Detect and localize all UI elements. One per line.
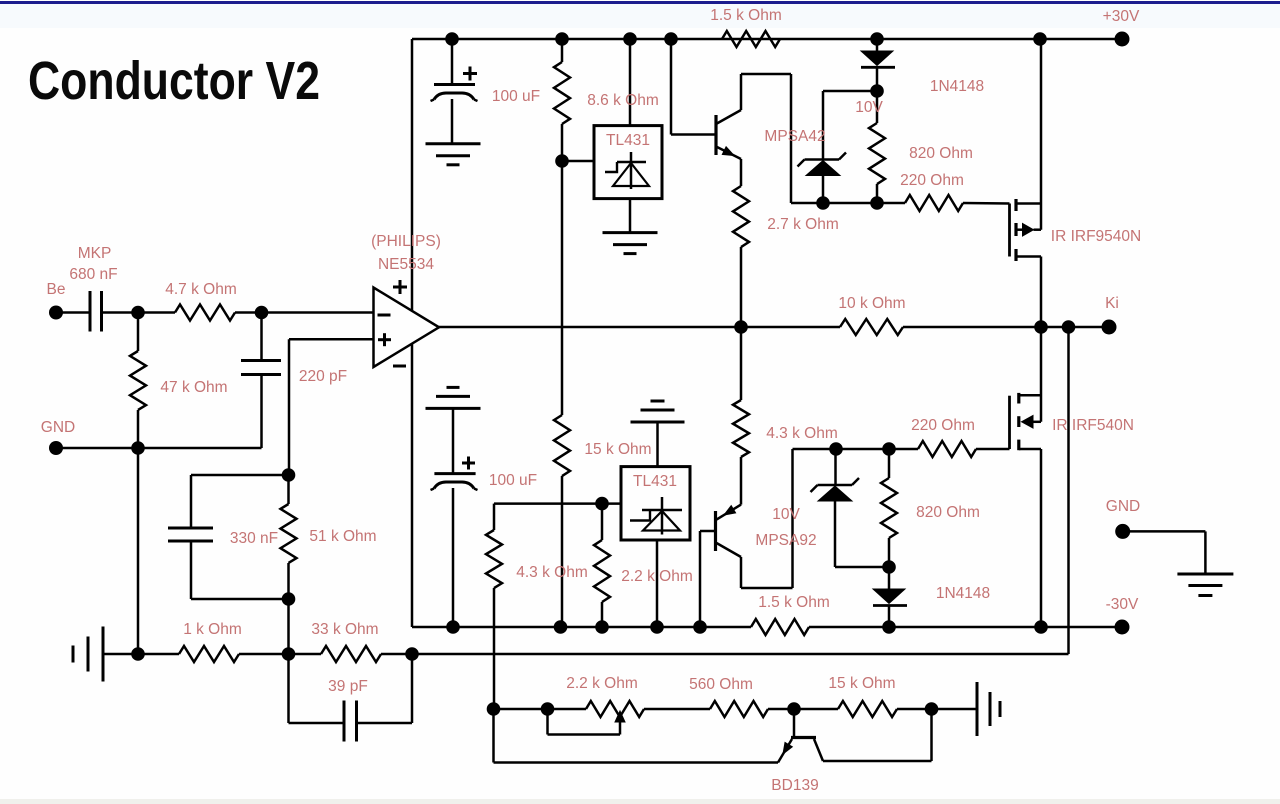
resistor 10k Ohm output bbox=[840, 319, 903, 335]
node feedback tap junction bbox=[282, 647, 296, 661]
svg-text:15 k Ohm: 15 k Ohm bbox=[828, 675, 895, 692]
node zener/820 bottom junction bbox=[882, 560, 896, 574]
node MPSA92 base wire on rail bbox=[693, 620, 707, 634]
node rail junction 8.6k bbox=[555, 32, 569, 46]
wire 220pF top lead bbox=[260, 313, 263, 361]
wire TL431 #1 anode to ground bbox=[629, 199, 632, 233]
node BD139 collector junction bbox=[925, 702, 939, 716]
capacitor 100uF plates bbox=[434, 83, 475, 86]
wire 51k node to feedback row bbox=[287, 599, 290, 654]
svg-text:10V: 10V bbox=[772, 506, 800, 523]
svg-text:Be: Be bbox=[47, 281, 66, 298]
ground sideways left bbox=[102, 627, 105, 682]
svg-text:100 uF: 100 uF bbox=[492, 88, 540, 105]
resistor 2.2k Ohm #2 bbox=[601, 504, 604, 540]
svg-text:220 Ohm: 220 Ohm bbox=[911, 417, 975, 434]
TL431 regulator #2 box bbox=[621, 467, 690, 540]
node Ki output terminal bbox=[1102, 320, 1117, 335]
svg-text:820 Ohm: 820 Ohm bbox=[909, 145, 973, 162]
wire output line 10k to Ki terminal bbox=[903, 326, 1109, 329]
node rail junction 1N4148 bbox=[870, 32, 884, 46]
op-amp supply + mark bbox=[393, 286, 407, 289]
op-amp inverting input - mark bbox=[378, 314, 391, 317]
op-amp non-inverting input + mark bbox=[378, 338, 391, 341]
svg-text:47 k Ohm: 47 k Ohm bbox=[160, 379, 227, 396]
node trimmer wiper junction bbox=[541, 702, 555, 716]
wire MOSFET #1 source from +30V rail bbox=[1033, 32, 1047, 46]
wire op-amp V+ supply from +30V rail bbox=[411, 39, 414, 312]
resistor 560 Ohm bbox=[710, 701, 768, 717]
ground inverted above lower 100uF bbox=[426, 407, 481, 410]
svg-text:8.6 k Ohm: 8.6 k Ohm bbox=[587, 92, 659, 109]
node feedback riser junction bbox=[1062, 320, 1076, 334]
ground right bbox=[1177, 573, 1233, 576]
node zener bottom junction bbox=[816, 196, 830, 210]
capacitor 330nF bbox=[168, 527, 213, 530]
svg-text:33 k Ohm: 33 k Ohm bbox=[311, 621, 378, 638]
capacitor 100uF + mark bbox=[463, 72, 477, 75]
svg-text:2.2 k Ohm: 2.2 k Ohm bbox=[566, 675, 638, 692]
svg-text:1 k Ohm: 1 k Ohm bbox=[183, 621, 242, 638]
transistor IR IRF9540N P-MOSFET bbox=[1008, 204, 1011, 257]
zener diode 10V #2 bbox=[834, 449, 837, 485]
svg-text:MPSA42: MPSA42 bbox=[764, 128, 825, 145]
node -30V rail bbox=[412, 626, 751, 629]
node +30V terminal bbox=[1115, 32, 1130, 47]
node rail junction TL431 cathode bbox=[623, 32, 637, 46]
svg-text:330 nF: 330 nF bbox=[230, 530, 278, 547]
wire MPSA92 base to -30V rail bbox=[700, 530, 714, 533]
svg-text:1.5 k Ohm: 1.5 k Ohm bbox=[758, 594, 830, 611]
node 820 #2 top junction bbox=[882, 442, 896, 456]
node inverting input junction bbox=[255, 306, 269, 320]
diode 1N4148 top bbox=[876, 39, 879, 51]
svg-text:4.7 k Ohm: 4.7 k Ohm bbox=[165, 281, 237, 298]
wire +30V top rail bbox=[412, 38, 1122, 41]
transistor MPSA92 bbox=[714, 511, 717, 551]
node -30V terminal bbox=[1115, 620, 1130, 635]
svg-text:MPSA92: MPSA92 bbox=[755, 532, 816, 549]
capacitor 330nF top lead bbox=[190, 475, 193, 528]
svg-text:10 k Ohm: 10 k Ohm bbox=[838, 295, 905, 312]
node GND right terminal bbox=[1115, 524, 1130, 539]
capacitor 39pF right lead bbox=[357, 722, 413, 725]
wire 330nF bottom lead bbox=[190, 541, 193, 599]
node 2.2k bottom on rail bbox=[595, 620, 609, 634]
transistor MPSA42 bbox=[714, 115, 717, 155]
op-amp supply - mark bbox=[393, 365, 406, 368]
wire rail to MPSA42 base bbox=[670, 39, 673, 135]
svg-text:IR IRF540N: IR IRF540N bbox=[1052, 417, 1134, 434]
resistor 15k Ohm bbox=[554, 415, 570, 476]
wire ground to TL431 #2 box bbox=[656, 422, 659, 467]
wire 680nF to node bbox=[102, 311, 176, 314]
svg-text:220 Ohm: 220 Ohm bbox=[900, 172, 964, 189]
node 1N4148 #2 on -30V rail bbox=[882, 620, 896, 634]
node rail junction MPSA42 base bbox=[664, 32, 678, 46]
node BD139 base junction bbox=[787, 702, 801, 716]
resistor 47k Ohm input shunt bbox=[137, 313, 140, 352]
svg-text:(PHILIPS): (PHILIPS) bbox=[371, 233, 441, 250]
resistor 51k Ohm bbox=[287, 475, 290, 504]
svg-text:Conductor V2: Conductor V2 bbox=[28, 51, 320, 111]
transistor BD139 bbox=[793, 709, 796, 736]
top blue border bbox=[0, 1, 1280, 4]
svg-text:4.3 k Ohm: 4.3 k Ohm bbox=[516, 564, 588, 581]
svg-text:2.7 k Ohm: 2.7 k Ohm bbox=[767, 216, 839, 233]
TL431 regulator #1 box bbox=[594, 126, 662, 199]
wire lower gate node row bbox=[793, 448, 919, 451]
TL431 #1 symbol bbox=[630, 152, 633, 189]
svg-text:TL431: TL431 bbox=[606, 132, 650, 149]
resistor 220 Ohm #2 gate bbox=[918, 441, 976, 457]
svg-text:15 k Ohm: 15 k Ohm bbox=[584, 441, 651, 458]
wire MOSFET #2 source from output bbox=[1040, 327, 1043, 422]
ground below TL431 #1 bbox=[603, 231, 658, 234]
svg-text:MKP: MKP bbox=[78, 245, 112, 262]
capacitor 39pF across 33k - left lead bbox=[287, 654, 290, 723]
resistor 220 Ohm #1 gate bbox=[905, 195, 963, 211]
trimmer 2.2k Ohm bbox=[586, 701, 644, 717]
node 33k right junction bbox=[405, 647, 419, 661]
svg-text:1N4148: 1N4148 bbox=[930, 78, 984, 95]
svg-text:+30V: +30V bbox=[1103, 8, 1140, 25]
node Be input terminal bbox=[49, 306, 63, 320]
node 8.6k bottom junction bbox=[555, 154, 569, 168]
svg-text:-30V: -30V bbox=[1106, 596, 1139, 613]
wire BD139 emitter return bbox=[494, 761, 779, 764]
svg-text:100 uF: 100 uF bbox=[489, 472, 537, 489]
svg-text:51 k Ohm: 51 k Ohm bbox=[309, 528, 376, 545]
resistor 2.7k Ohm emitter bbox=[740, 159, 743, 186]
resistor 1.5k Ohm top rail bbox=[722, 31, 780, 47]
wire + input riser down to 330nF/51k node bbox=[288, 339, 291, 475]
wire MPSA92 collector loop bbox=[740, 557, 743, 588]
wire diode node to zener bbox=[823, 90, 877, 93]
node input junction 47k bbox=[131, 306, 145, 320]
wire op-amp + input bbox=[289, 338, 374, 341]
capacitor 220pF bbox=[241, 359, 281, 362]
wire MOSFET #1 drain to output bbox=[1040, 257, 1043, 328]
wire output line from op-amp to 10k bbox=[439, 326, 840, 329]
transistor IR IRF540N N-MOSFET bbox=[1008, 396, 1011, 449]
node 47k bottom junction bbox=[131, 441, 145, 455]
node output left junction bbox=[734, 320, 748, 334]
wire MPSA42 collector loop bbox=[740, 74, 743, 110]
ground sideways right bbox=[976, 682, 979, 736]
resistor 15k Ohm #2 bbox=[838, 701, 897, 717]
capacitor 100uF positive rail - top lead bbox=[451, 39, 454, 85]
node 2.2k top junction bbox=[595, 497, 609, 511]
node TL431 #2 on rail bbox=[650, 620, 664, 634]
svg-text:680 nF: 680 nF bbox=[69, 266, 117, 283]
capacitor 680nF MKP input cap bbox=[89, 291, 92, 332]
resistor 4.3k Ohm #1 bbox=[493, 504, 496, 530]
resistor 820 Ohm #2 bbox=[888, 449, 891, 478]
wire feedback riser to output node bbox=[1067, 327, 1070, 654]
wire op-amp V- supply down to -30V rail bbox=[411, 344, 414, 627]
svg-text:1N4148: 1N4148 bbox=[936, 585, 990, 602]
svg-text:220 pF: 220 pF bbox=[299, 368, 347, 385]
trimmer wiper arm bbox=[546, 709, 549, 735]
svg-text:BD139: BD139 bbox=[771, 777, 818, 794]
wire MOSFET #2 drain to -30V rail bbox=[1040, 449, 1043, 627]
svg-text:GND: GND bbox=[41, 419, 75, 436]
node 820 bottom junction bbox=[870, 196, 884, 210]
svg-text:1.5 k Ohm: 1.5 k Ohm bbox=[710, 7, 782, 24]
svg-text:IR IRF9540N: IR IRF9540N bbox=[1051, 228, 1141, 245]
TL431 #2 symbol bbox=[661, 497, 664, 535]
wire GND to ground symbol bbox=[1123, 530, 1206, 533]
node 51k top junction bbox=[282, 468, 296, 482]
wire feedback line (1k/33k node row) bbox=[103, 653, 179, 656]
svg-text:TL431: TL431 bbox=[633, 473, 677, 490]
node MOSFET source output junction bbox=[1034, 320, 1048, 334]
resistor 8.6k Ohm bbox=[561, 39, 564, 62]
node bias row left junction bbox=[487, 702, 501, 716]
svg-text:NE5534: NE5534 bbox=[378, 256, 434, 273]
node 1k left junction bbox=[131, 647, 145, 661]
ground below top 100uF bbox=[426, 142, 481, 145]
wire node row to 330nF bbox=[191, 474, 289, 477]
node 51k bottom junction bbox=[282, 592, 296, 606]
bottom gray strip bbox=[0, 799, 1280, 804]
svg-text:560 Ohm: 560 Ohm bbox=[689, 676, 753, 693]
resistor 1k Ohm to ground bbox=[179, 646, 239, 662]
ground inverted above TL431 #2 bbox=[631, 421, 685, 424]
resistor 4.3k Ohm #2 bbox=[740, 327, 743, 400]
diode 1N4148 #2 bbox=[888, 567, 891, 589]
svg-text:10V: 10V bbox=[855, 99, 883, 116]
wire rail to TL431 box bbox=[629, 39, 632, 126]
wire BD139 collector loop bbox=[823, 760, 932, 763]
svg-text:4.3 k Ohm: 4.3 k Ohm bbox=[766, 425, 838, 442]
resistor 1.5k Ohm #2 in rail bbox=[751, 619, 809, 635]
resistor 33k Ohm feedback bbox=[321, 646, 381, 662]
resistor 820 Ohm #1 bbox=[876, 91, 879, 123]
capacitor 39pF bbox=[343, 701, 346, 742]
node zener #2 top junction bbox=[829, 442, 843, 456]
resistor 4.7k Ohm series input bbox=[175, 305, 235, 321]
wire junction to TL431 ref bbox=[562, 160, 594, 163]
wire mid reference node row bbox=[494, 502, 621, 505]
wire gate drive node row upper bbox=[791, 202, 905, 205]
wire GND row bbox=[56, 447, 262, 450]
node GND input terminal bbox=[49, 441, 63, 455]
node MOSFET #2 drain on rail bbox=[1034, 620, 1048, 634]
node lower 100uF on -30V rail bbox=[446, 620, 460, 634]
svg-text:GND: GND bbox=[1106, 498, 1140, 515]
node 15k bottom on -30V rail bbox=[554, 620, 568, 634]
wire Be input line bbox=[56, 311, 90, 314]
wire 4.7k to op-amp inverting input bbox=[235, 311, 374, 314]
wire 100uF to ground bbox=[451, 99, 454, 144]
op-amp NE5534 triangle bbox=[374, 288, 440, 368]
svg-text:Ki: Ki bbox=[1105, 295, 1119, 312]
svg-text:820 Ohm: 820 Ohm bbox=[916, 504, 980, 521]
zener diode 10V #1 bbox=[822, 91, 825, 160]
wire 47k node down to feedback row bbox=[137, 448, 140, 654]
wire 220pF bottom lead to GND row bbox=[260, 375, 263, 449]
svg-text:2.2 k Ohm: 2.2 k Ohm bbox=[621, 568, 693, 585]
wire bias network bottom row bbox=[494, 708, 587, 711]
wire junction down to 15k bbox=[561, 161, 564, 415]
wire TL431 #2 to -30V rail bbox=[656, 540, 659, 627]
svg-text:39 pF: 39 pF bbox=[328, 678, 368, 695]
node +30V rail cap junction bbox=[445, 32, 459, 46]
capacitor 100uF negative rail bbox=[452, 408, 455, 473]
node diode cathode junction bbox=[870, 84, 884, 98]
